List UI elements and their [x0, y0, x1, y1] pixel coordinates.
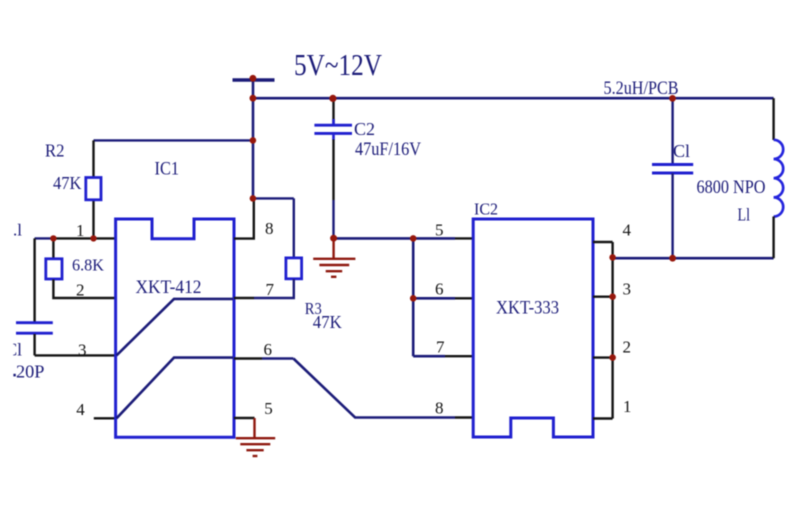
wire: 6.8K bottom lead to pin2 [53, 280, 115, 299]
capacitor C2 top lead [332, 98, 334, 125]
capacitor C2 plates [314, 124, 352, 127]
svg-text:8: 8 [435, 399, 444, 418]
svg-text:3: 3 [623, 280, 632, 299]
capacitor C1 plates [652, 163, 693, 166]
svg-text:8: 8 [265, 219, 274, 238]
svg-text:R2: R2 [45, 141, 65, 161]
wire: IC2 pin3 stub [593, 296, 613, 298]
white clip cover left edge [0, 338, 13, 360]
svg-text:.l: .l [13, 221, 22, 240]
wire: output node horizontal to tank [613, 257, 774, 260]
svg-text:IC1: IC1 [155, 159, 180, 179]
wire: R2 top horizontal y=140 [94, 139, 254, 141]
svg-text:2: 2 [76, 281, 85, 300]
capacitor C1 bottom lead [671, 173, 673, 258]
svg-text:7: 7 [266, 280, 275, 299]
svg-text:6: 6 [435, 280, 444, 299]
wire: pin8 node horizontal to R3 [253, 197, 294, 199]
svg-text:5V~12V: 5V~12V [294, 47, 382, 82]
svg-text:47uF/16V: 47uF/16V [355, 140, 422, 160]
svg-text:1: 1 [76, 221, 85, 240]
wire: power feed vertical x=253 [252, 80, 255, 198]
wire: IC2 pin4 stub [593, 241, 613, 243]
svg-text:XKT-412: XKT-412 [136, 277, 202, 298]
svg-text:5: 5 [435, 221, 444, 240]
wire: R3 top lead [293, 198, 295, 258]
capacitor C2 bottom lead [332, 140, 334, 201]
wire: IC2 left bus vertical x=413 [412, 238, 415, 356]
svg-text:3: 3 [78, 341, 87, 360]
wire: IC2 pin1 stub [593, 417, 613, 419]
wire: R2 bottom lead [92, 200, 94, 239]
resistor R2 body [86, 178, 101, 200]
wire: pin1 net horizontal y=238.4 [35, 237, 54, 239]
wire: IC2 pin6 horizontal [413, 297, 455, 300]
resistor R3 body [286, 258, 302, 279]
wire: diagonal IC1 pin6 to IC2 pin8 [293, 359, 455, 418]
wire: main +V rail y=98 [253, 97, 774, 100]
svg-text:4: 4 [623, 221, 632, 240]
wire: 6.8K top lead [52, 238, 54, 259]
op IC2 XKT-333 outline [473, 219, 593, 437]
svg-text:5.2uH/PCB: 5.2uH/PCB [604, 79, 679, 99]
wire: right edge vertical below L1 [772, 217, 774, 259]
wire: R3 bottom lead to pin7 [254, 279, 294, 298]
svg-text:6: 6 [264, 340, 273, 359]
svg-text:IC2: IC2 [474, 200, 498, 219]
inductor L1 arcs [774, 140, 784, 217]
svg-text:1: 1 [623, 397, 632, 416]
power terminal bar [233, 78, 275, 81]
capacitor 20P plates [16, 321, 53, 324]
svg-text:2: 2 [623, 338, 632, 357]
wire: IC1 pin4 stub [94, 417, 115, 419]
ground under C2 [313, 238, 355, 277]
svg-text:47K: 47K [313, 312, 342, 332]
capacitor C1 top lead [671, 98, 673, 164]
wire: IC2 pin2 stub [593, 356, 613, 358]
wire: IC2 pin7 horizontal [413, 355, 445, 358]
svg-text:Ll: Ll [738, 205, 751, 225]
wire: IC1 pin8 stub and vertical [234, 198, 254, 238]
wire: right edge vertical above L1 [772, 98, 774, 140]
wire: left vertical below 20P cap [33, 334, 35, 355]
ground at IC1 pin5 [236, 418, 275, 456]
wire: IC1 internal link pin4 to pin6 [117, 358, 234, 419]
svg-text:4: 4 [76, 400, 85, 419]
wire: IC2 right bus vertical [611, 242, 613, 419]
svg-text:20P: 20P [16, 362, 45, 382]
wire: IC1 pin6 stub [234, 357, 262, 359]
wire: left vertical above 20P cap [33, 238, 35, 322]
svg-text:C2: C2 [354, 119, 375, 139]
wire: ground node to IC2 pin5 [334, 237, 455, 240]
svg-text:5: 5 [264, 399, 273, 418]
wire: IC1 pin5 stub [234, 417, 255, 419]
wire: IC1 pin3 horizontal [35, 354, 115, 356]
svg-text:7: 7 [436, 338, 445, 357]
svg-text:XKT-333: XKT-333 [496, 298, 559, 319]
svg-text:47K: 47K [53, 173, 82, 193]
svg-text:6800 NPO: 6800 NPO [697, 178, 766, 198]
svg-text:Cl: Cl [673, 141, 690, 161]
wire: IC1 internal link pin3 to pin7 [117, 299, 234, 356]
svg-text:6.8K: 6.8K [72, 255, 105, 274]
resistor 6.8K body [46, 259, 62, 279]
wire: R2 top lead [92, 140, 94, 178]
op IC1 XKT-412 outline [116, 219, 234, 437]
